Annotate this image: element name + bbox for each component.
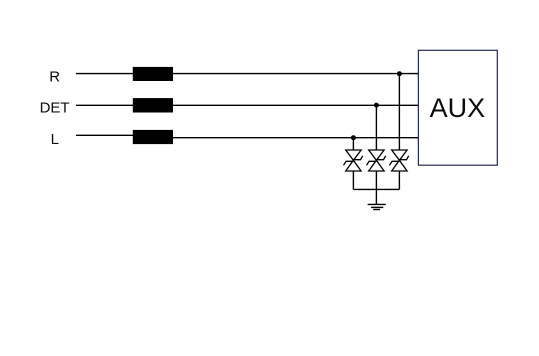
ferrite bead FB2 on DET line [133,98,173,112]
junction dot on L line [351,135,356,140]
ground [368,204,386,209]
node label L [51,131,59,148]
ferrite bead FB3 on L line [133,130,173,144]
wire from L junction down to TVS D1 [352,138,354,150]
wire from DET junction down to TVS D2 [375,105,377,150]
TVS diode D3 (bidirectional, on R net) [390,150,409,171]
svg-text:AUX: AUX [430,93,486,123]
wire TVS D2 bottom to ground bus [375,171,377,189]
wire DET (net DET to AUX) [76,104,418,106]
wire TVS D1 bottom to ground bus [352,171,354,189]
node label DET [40,99,70,116]
TVS diode D1 (bidirectional, on L net) [344,150,363,171]
wire L right segment [172,137,418,139]
label AUX [430,93,486,123]
IC U1 AUX box [418,50,497,165]
wire L left segment [76,134,134,136]
TVS diode D2 (bidirectional, on DET net) [367,150,386,171]
ground bus wire [353,188,399,190]
ferrite bead FB1 on R line [133,67,173,81]
junction dot on R line [397,71,402,76]
node label R [49,68,60,85]
wire R (net R to AUX) [76,73,418,75]
wire ground bus to ground symbol [375,189,377,204]
wire TVS D3 bottom to ground bus [398,171,400,189]
svg-text:L: L [51,131,59,148]
svg-text:DET: DET [40,99,70,116]
wire from R junction down to TVS D3 [398,74,400,150]
svg-text:R: R [49,68,60,85]
junction dot on DET line [374,103,379,108]
